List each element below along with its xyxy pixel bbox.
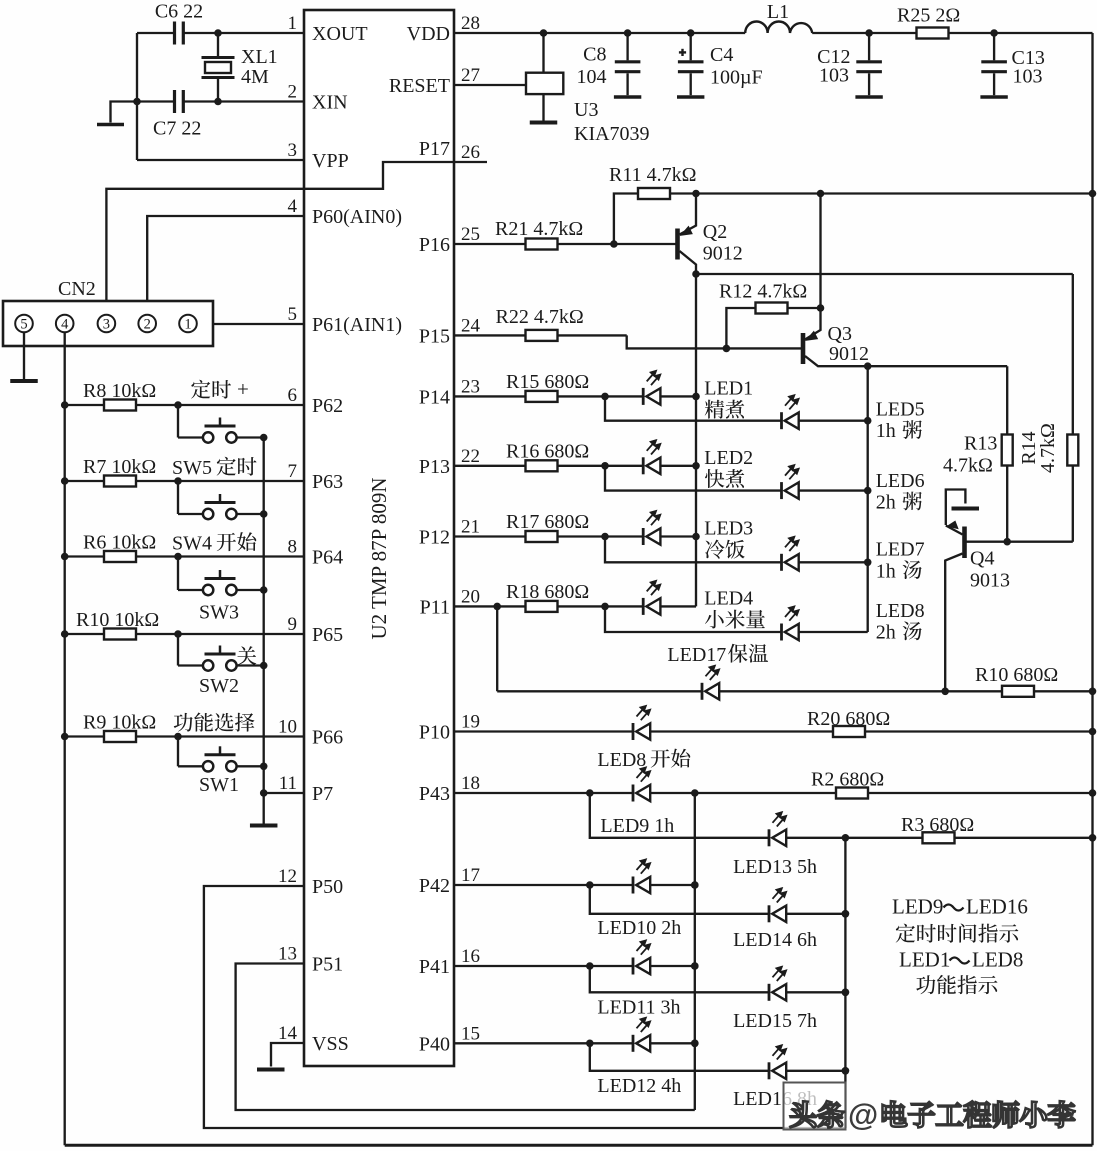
svg-text:3: 3 (288, 140, 298, 161)
svg-text:R7 10kΩ: R7 10kΩ (83, 456, 156, 478)
capacitor C6 (155, 1, 203, 45)
IC U2 left pin numbers 1-14 (278, 13, 298, 1044)
svg-text:R10 10kΩ: R10 10kΩ (76, 609, 159, 631)
svg-text:L1: L1 (767, 1, 789, 23)
svg-text:P50: P50 (312, 876, 343, 898)
wire branch to LED7 row (605, 537, 868, 563)
LED LED12 (597, 1018, 681, 1097)
ground at crystal (97, 102, 137, 125)
svg-text:16: 16 (461, 946, 480, 967)
svg-text:R16 680Ω: R16 680Ω (506, 440, 589, 462)
svg-text:R12 4.7kΩ: R12 4.7kΩ (719, 281, 807, 303)
resistor R7 10k (83, 456, 156, 487)
svg-text:9013: 9013 (970, 570, 1010, 592)
svg-text:SW4: SW4 (172, 533, 217, 555)
svg-text:2h: 2h (876, 622, 901, 644)
svg-text:R22 4.7kΩ: R22 4.7kΩ (496, 306, 584, 328)
svg-text:2: 2 (288, 82, 298, 103)
svg-text:LED4: LED4 (704, 587, 753, 609)
svg-text:@: @ (848, 1097, 878, 1132)
LED LED2 (643, 440, 753, 474)
wire P62 row pin 6 (61, 401, 304, 409)
LED LED5 (782, 395, 925, 429)
svg-text:19: 19 (461, 712, 480, 733)
svg-text:10: 10 (278, 717, 297, 738)
label 功能选择 (174, 713, 193, 732)
inductor L1 (745, 1, 812, 33)
wire branch LED14 row (590, 885, 849, 918)
svg-text:P66: P66 (312, 727, 343, 749)
svg-text:100µF: 100µF (710, 67, 763, 89)
svg-text:R15 680Ω: R15 680Ω (506, 371, 589, 393)
watermark author text (848, 1097, 1075, 1132)
resistor R10 10k (76, 609, 159, 640)
svg-text:8: 8 (288, 537, 298, 558)
wire P60 pin4 to CN2 pin2 (147, 216, 304, 315)
resistor R17 680 (506, 511, 589, 542)
capacitor C13 103 (980, 33, 1044, 97)
wire crystal left rail (136, 33, 138, 160)
svg-text:28: 28 (461, 13, 480, 34)
svg-text:LED15 7h: LED15 7h (733, 1010, 817, 1032)
wire branch LED16 row (590, 1043, 849, 1074)
LED LED6 (782, 465, 925, 499)
svg-text:13: 13 (278, 944, 297, 965)
svg-text:R21 4.7kΩ: R21 4.7kΩ (495, 218, 583, 240)
svg-text:21: 21 (461, 517, 480, 538)
svg-text:LED8: LED8 (972, 948, 1023, 972)
svg-text:Q2: Q2 (703, 221, 727, 243)
resistor R11 4.7k (609, 164, 696, 244)
svg-text:P14: P14 (419, 386, 450, 408)
LED LED4 (643, 581, 753, 615)
resistor R14 4.7k (1018, 274, 1078, 542)
svg-text:103: 103 (819, 65, 849, 87)
svg-text:P11: P11 (420, 596, 450, 618)
svg-text:SW2: SW2 (199, 675, 239, 697)
resistor R16 680 (506, 440, 589, 471)
svg-text:P51: P51 (312, 954, 343, 976)
svg-text:18: 18 (461, 773, 480, 794)
svg-text:103: 103 (1013, 66, 1043, 88)
svg-text:LED16: LED16 (966, 895, 1028, 919)
svg-text:LED9: LED9 (892, 895, 943, 919)
svg-text:LED7: LED7 (876, 538, 925, 560)
ground at switch rail (263, 793, 265, 825)
svg-text:P63: P63 (312, 471, 343, 493)
wire P64 row pin 8 (61, 553, 304, 561)
ground at U3 (542, 94, 544, 121)
ground at CN2 pin5 (23, 332, 25, 380)
svg-text:LED2: LED2 (704, 447, 753, 469)
label 关 (237, 646, 256, 665)
svg-text:25: 25 (461, 224, 480, 245)
svg-text:9: 9 (288, 614, 298, 635)
svg-text:LED13 5h: LED13 5h (733, 856, 817, 878)
svg-text:P17: P17 (419, 138, 450, 160)
svg-text:XL1: XL1 (241, 46, 278, 68)
svg-text:R10 680Ω: R10 680Ω (975, 664, 1058, 686)
svg-text:U2 TMP 87P 809N: U2 TMP 87P 809N (367, 477, 391, 639)
wire P65 row pin 9 (61, 630, 304, 638)
label SW5 定时 (217, 457, 236, 476)
svg-text:1: 1 (288, 13, 298, 34)
watermark toutiao logo (784, 1083, 846, 1130)
IC U2 right pin numbers 15-28 (461, 13, 481, 1044)
svg-text:VPP: VPP (312, 150, 349, 172)
svg-text:1h: 1h (876, 420, 901, 442)
svg-text:LED6: LED6 (876, 470, 925, 492)
resistor R10 680 (975, 664, 1058, 697)
ground at VSS (257, 1068, 285, 1072)
svg-text:4: 4 (288, 196, 298, 217)
svg-text:5: 5 (288, 304, 298, 325)
wire P66 row pin 10 (61, 733, 304, 741)
transistor Q4 9013 (945, 490, 1073, 692)
resistor R15 680 (506, 371, 589, 402)
svg-text:LED10 2h: LED10 2h (597, 917, 681, 939)
wire P42 pin17 row (454, 881, 699, 889)
svg-text:P10: P10 (419, 722, 450, 744)
svg-text:P60(AIN0): P60(AIN0) (312, 206, 402, 228)
svg-text:R20 680Ω: R20 680Ω (807, 708, 890, 730)
LED LED15 (733, 967, 817, 1032)
ground at Q4 emitter (952, 507, 980, 511)
wire branch to LED6 row (605, 466, 868, 491)
wire P15 pin24 row (454, 335, 801, 348)
wire LED1-4 anode rail (692, 274, 700, 606)
wire P17 route to CN2 pin3 (106, 162, 454, 315)
wire P10 pin19 row (454, 728, 1096, 736)
note 功能指示 (916, 975, 935, 994)
LED LED9 (600, 768, 674, 838)
svg-text:P13: P13 (419, 456, 450, 478)
svg-text:LED5: LED5 (876, 399, 925, 421)
svg-text:LED1: LED1 (899, 948, 950, 972)
label LED8 hours (876, 622, 922, 644)
svg-text:R13: R13 (964, 433, 997, 455)
svg-text:4.7kΩ: 4.7kΩ (943, 455, 993, 477)
wire left rail from CN2 pin4 (64, 332, 66, 1145)
wire P11 pin20 vertical (496, 606, 498, 691)
LED LED10 (597, 860, 681, 940)
IC U2 left pin name labels (312, 23, 402, 1055)
svg-text:P43: P43 (419, 783, 450, 805)
svg-text:C6 22: C6 22 (155, 1, 203, 23)
svg-text:P65: P65 (312, 624, 343, 646)
svg-text:VSS: VSS (312, 1033, 349, 1055)
wire VPP pin3 (137, 159, 304, 161)
resistor R6 10k (83, 532, 156, 563)
resistor R20 680 (807, 708, 890, 737)
svg-text:15: 15 (461, 1023, 480, 1044)
wire P17 pin26 stub (454, 161, 487, 163)
svg-text:C4: C4 (710, 44, 733, 66)
svg-text:C8: C8 (583, 44, 606, 66)
wire P50 pin12 route (204, 886, 846, 1128)
svg-text:1h: 1h (876, 560, 901, 582)
svg-text:1: 1 (184, 317, 191, 333)
LED LED17 (667, 644, 731, 700)
resistor R8 10k (83, 380, 156, 411)
wire P63 row pin 7 (61, 477, 304, 485)
wire LED5-8 rail from Q3 collector (864, 362, 872, 632)
wire switch common rail (260, 438, 268, 797)
capacitor C8 104 (577, 33, 642, 97)
svg-text:SW3: SW3 (199, 602, 239, 624)
connector CN2 (3, 278, 213, 346)
note LED1-LED8 text (899, 948, 1023, 972)
IC U3 KIA7039 reset (526, 33, 650, 145)
svg-text:3: 3 (103, 317, 110, 333)
wire P43 pin18 row (454, 789, 1096, 797)
resistor R3 680 (901, 814, 974, 843)
label 冷饭 (705, 540, 724, 559)
svg-text:104: 104 (577, 66, 607, 88)
svg-text:CN2: CN2 (58, 278, 96, 300)
switch SW5 (172, 405, 268, 479)
resistor R9 10k (83, 712, 156, 743)
svg-text:R3 680Ω: R3 680Ω (901, 814, 974, 836)
capacitor C4 100uF (677, 33, 763, 97)
wire branch to LED5 row (605, 396, 868, 420)
LED LED3 (643, 511, 753, 545)
svg-text:XOUT: XOUT (312, 23, 368, 45)
wire XIN pin2 (133, 98, 304, 106)
LED LED7 (782, 537, 925, 571)
svg-text:26: 26 (461, 142, 480, 163)
wire P40 pin15 row (454, 1040, 699, 1048)
resistor R2 680 (811, 769, 884, 799)
note 定时时间指示 (896, 924, 915, 943)
wire P51 pin13 route (236, 964, 695, 1111)
svg-text:6: 6 (288, 385, 298, 406)
svg-text:C7 22: C7 22 (153, 118, 201, 140)
label LED5 hours (876, 420, 922, 442)
wire P14 row pin 23 (454, 393, 696, 401)
svg-text:+: + (237, 377, 249, 401)
svg-text:22: 22 (461, 446, 480, 467)
LED LED8 (782, 600, 925, 641)
svg-text:LED3: LED3 (704, 518, 753, 540)
svg-text:Q4: Q4 (970, 548, 994, 570)
svg-text:LED9 1h: LED9 1h (600, 815, 674, 837)
svg-text:27: 27 (461, 65, 480, 86)
wire P41 pin16 row (454, 962, 699, 970)
wire P11 row pin 20 (454, 603, 696, 611)
svg-text:12: 12 (278, 866, 297, 887)
svg-text:23: 23 (461, 376, 480, 397)
wire VDD sub-rail Q2 emitter to right rail (692, 190, 1096, 198)
svg-text:R25 2Ω: R25 2Ω (897, 5, 960, 27)
svg-text:P64: P64 (312, 547, 343, 569)
svg-text:P41: P41 (419, 956, 450, 978)
wire LED9-12 cathode rail (691, 793, 699, 1110)
wire LED13-16 cathode rail (842, 838, 850, 1128)
IC U2 right pin name labels (389, 23, 450, 1055)
transistor Q3 9012 (803, 308, 1007, 366)
svg-text:LED11 3h: LED11 3h (597, 997, 680, 1019)
svg-text:2h: 2h (876, 492, 901, 514)
label 定时+ (191, 377, 249, 401)
switch SW4 (172, 481, 268, 555)
resistor R25 2ohm (897, 5, 960, 39)
capacitor C7 (153, 90, 201, 140)
svg-text:11: 11 (279, 773, 297, 794)
LED LED8 start (597, 706, 651, 771)
wire P16 pin25 row (454, 240, 676, 248)
label 快煮 (705, 469, 724, 488)
switch SW1 (178, 737, 268, 797)
label 精煮 (705, 400, 724, 419)
capacitor C12 103 (817, 33, 883, 97)
svg-text:P7: P7 (312, 783, 333, 805)
svg-text:R9 10kΩ: R9 10kΩ (83, 712, 156, 734)
svg-text:SW1: SW1 (199, 774, 239, 796)
LED LED14 (733, 888, 817, 951)
label 开始 (651, 749, 670, 767)
wire branch LED13 row (590, 793, 1096, 842)
wire right rail VDD (1091, 33, 1093, 1145)
svg-text:P62: P62 (312, 395, 343, 417)
svg-text:14: 14 (278, 1023, 298, 1044)
svg-text:R11 4.7kΩ: R11 4.7kΩ (609, 164, 696, 186)
wire bottom ground line (65, 1144, 1093, 1147)
svg-text:P61(AIN1): P61(AIN1) (312, 314, 402, 336)
label SW4 开始 (217, 533, 236, 551)
svg-text:KIA7039: KIA7039 (574, 123, 650, 145)
svg-text:R6 10kΩ: R6 10kΩ (83, 532, 156, 554)
svg-text:2: 2 (144, 317, 151, 333)
wire XOUT pin1 (137, 29, 304, 37)
wire P13 row pin 22 (454, 462, 696, 470)
label LED7 hours (876, 560, 922, 582)
svg-text:4M: 4M (241, 66, 269, 88)
label LED6 hours (876, 492, 922, 514)
crystal XL1 (202, 33, 278, 102)
resistor R13 4.7k (943, 366, 1013, 545)
wire LED17 row (497, 688, 1096, 696)
resistor R12 4.7k (719, 281, 821, 353)
svg-text:5: 5 (20, 317, 27, 333)
svg-text:17: 17 (461, 865, 480, 886)
svg-text:R18 680Ω: R18 680Ω (506, 581, 589, 603)
resistor R21 4.7k (495, 218, 583, 250)
svg-text:LED8: LED8 (876, 600, 925, 622)
svg-text:20: 20 (461, 586, 480, 607)
LED LED11 (597, 941, 680, 1019)
svg-text:SW5: SW5 (172, 457, 217, 479)
svg-text:RESET: RESET (389, 75, 450, 97)
wire VSS pin14 (271, 1043, 304, 1067)
svg-text:7: 7 (288, 461, 298, 482)
note LED9-LED16 timing text (892, 895, 1028, 919)
wire R12 right rail (817, 194, 825, 312)
switch SW2 (178, 634, 268, 697)
wire Q2 collector node (692, 270, 1073, 278)
svg-text:9012: 9012 (703, 243, 743, 265)
svg-text:P40: P40 (419, 1033, 450, 1055)
wire VDD pin28 rail (454, 29, 1093, 37)
svg-text:Q3: Q3 (828, 323, 852, 345)
svg-text:U3: U3 (574, 99, 598, 121)
svg-text:LED14 6h: LED14 6h (733, 929, 817, 951)
svg-text:R17 680Ω: R17 680Ω (506, 511, 589, 533)
svg-text:24: 24 (461, 315, 481, 336)
wire RESET pin27 (454, 84, 526, 86)
LED LED1 (643, 371, 753, 405)
svg-text:P15: P15 (419, 325, 450, 347)
label 小米量 (705, 610, 724, 629)
svg-text:R2 680Ω: R2 680Ω (811, 769, 884, 791)
svg-text:4.7kΩ: 4.7kΩ (1037, 423, 1059, 473)
svg-text:R8 10kΩ: R8 10kΩ (83, 380, 156, 402)
label 保温 (728, 644, 748, 663)
svg-text:4: 4 (61, 317, 69, 333)
svg-text:P42: P42 (419, 875, 450, 897)
svg-text:P16: P16 (419, 234, 450, 256)
transistor Q2 9012 (678, 194, 743, 275)
svg-text:LED17: LED17 (667, 644, 731, 666)
switch SW3 (178, 557, 268, 624)
resistor R18 680 (506, 581, 589, 612)
LED LED16 (733, 1045, 817, 1110)
svg-text:XIN: XIN (312, 92, 348, 114)
resistor R22 4.7k (496, 306, 584, 341)
IC U2 TMP87P809N body (304, 10, 454, 1066)
svg-text:LED12 4h: LED12 4h (597, 1075, 681, 1097)
wire P7 pin11 (264, 792, 304, 794)
LED LED13 (733, 812, 817, 878)
wire P61 pin5 to CN2 pin1 (197, 323, 304, 325)
svg-text:VDD: VDD (407, 23, 450, 45)
wire branch LED15 row (590, 966, 849, 996)
svg-text:LED1: LED1 (704, 377, 753, 399)
svg-text:9012: 9012 (829, 343, 869, 365)
svg-text:P12: P12 (419, 527, 450, 549)
wire P12 row pin 21 (454, 533, 696, 541)
wire branch to LED8 row (605, 606, 868, 632)
